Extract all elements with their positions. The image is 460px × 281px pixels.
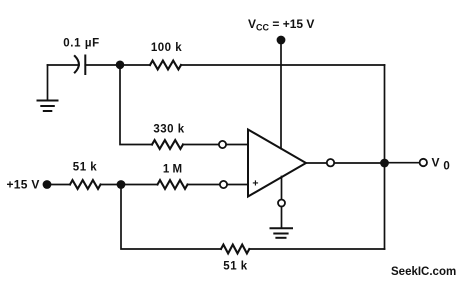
svg-text:0.1 µF: 0.1 µF — [63, 38, 99, 50]
wire: circle to op-amp — [227, 184, 248, 186]
node B junction dot — [117, 180, 126, 189]
svg-text:100 k: 100 k — [151, 42, 182, 54]
wire: node A down to R2 level — [120, 65, 152, 145]
terminal VCC dot — [277, 36, 286, 45]
svg-text:51 k: 51 k — [73, 162, 97, 174]
ground G1 (top-left) — [38, 101, 58, 112]
capacitor C1 0.1uF — [75, 56, 86, 75]
pin: output open circle — [327, 159, 334, 166]
wire: R4 to non-inverting input circle — [188, 184, 221, 186]
svg-text:330 k: 330 k — [153, 124, 184, 136]
wire: R3 to node B — [101, 184, 122, 186]
svg-text:SeekIC.com: SeekIC.com — [391, 266, 456, 278]
wire: node B to R4 — [121, 184, 158, 186]
wire: node C to output terminal — [385, 162, 420, 164]
wire: circle to ground G2 — [281, 207, 283, 228]
resistor R3 51k (left) — [70, 180, 101, 189]
svg-text:51 k: 51 k — [223, 261, 247, 273]
pin: op-amp bottom open circle — [278, 200, 285, 207]
svg-text:1 M: 1 M — [163, 164, 182, 176]
wire: node B down to bottom rail — [121, 185, 221, 250]
resistor R5 51k (bottom) — [221, 245, 249, 254]
resistor R2 330k — [152, 140, 183, 149]
wire: op-amp output to circle — [306, 162, 327, 164]
node A junction dot — [116, 61, 125, 70]
op-amp U1 triangle — [248, 130, 306, 197]
wire: right side vertical (feedback rail) — [384, 65, 386, 249]
svg-text:VCC = +15 V: VCC = +15 V — [248, 17, 314, 33]
ground G2 (below op-amp) — [271, 228, 293, 238]
wire: R2 to inverting input circle — [183, 144, 219, 146]
wire: top-left horizontal from ground stem to capacitor — [48, 64, 80, 66]
wire: output circle to node C — [334, 162, 384, 164]
wire: op-amp bottom pin down — [281, 177, 283, 200]
wire: node A to resistor R1 — [120, 64, 150, 66]
resistor R4 1M — [158, 180, 188, 189]
wire: R5 to bottom-right corner — [249, 248, 384, 250]
wire: circle to op-amp — [226, 144, 248, 146]
wire: top-left vertical stem to ground — [47, 65, 49, 100]
resistor R1 100k — [150, 61, 181, 70]
terminal VO open circle — [420, 159, 427, 166]
pin: non-inverting input open circle — [220, 181, 227, 188]
terminal +15V input dot — [43, 180, 52, 189]
svg-text:+15 V: +15 V — [7, 178, 40, 192]
pin: inverting input open circle — [219, 141, 226, 148]
wire: +15V to R3 — [51, 184, 70, 186]
wire: R1 to top-right corner — [181, 64, 385, 66]
svg-text:+: + — [252, 177, 258, 189]
svg-text:V0: V0 — [432, 155, 450, 172]
wire: capacitor to node A — [85, 64, 120, 66]
wire: VCC stem down to op-amp — [280, 44, 282, 149]
node C junction dot — [380, 159, 389, 168]
